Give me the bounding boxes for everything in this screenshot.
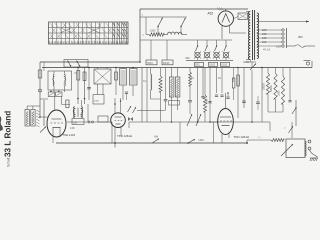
capacitor block C30 — [234, 13, 248, 20]
wire main bus — [42, 67, 312, 69]
capacitor C5 — [125, 91, 128, 93]
capacitor C7 — [188, 100, 192, 102]
tube V3 envelope — [218, 93, 234, 143]
valve data table grid — [49, 22, 129, 44]
transformer T1 secondary winding — [257, 13, 259, 59]
antenna coil box with L2 L3 — [48, 71, 72, 92]
detector box — [98, 116, 108, 122]
wire V1 top stubs — [54, 97, 56, 111]
fuse box F2 DW15 — [162, 60, 173, 65]
junction dot x247 — [246, 142, 248, 144]
resistor R2b — [83, 72, 86, 81]
IF can K2 winding sections — [120, 69, 138, 86]
wire transformer bottom lead — [249, 60, 251, 63]
wire x252b — [251, 70, 253, 122]
svg-text:Schalt: Schalt — [7, 158, 11, 167]
wire top bus — [140, 8, 248, 10]
svg-text:Gr/W: Gr/W — [243, 60, 250, 64]
wire lamp bottom bus — [186, 59, 233, 61]
svg-text:5000: 5000 — [206, 98, 209, 104]
capacitor C2 — [87, 87, 91, 89]
fuse box F3 D51 — [195, 62, 204, 66]
svg-text:50000: 50000 — [270, 85, 273, 92]
K3 base box — [169, 101, 180, 106]
output terminal box — [286, 139, 306, 158]
wire R1-L1 — [164, 34, 168, 36]
svg-text:220: 220 — [262, 28, 267, 32]
IF transformer L6 coils — [73, 100, 82, 118]
svg-text:30000: 30000 — [263, 83, 266, 90]
svg-text:≈: ≈ — [143, 33, 145, 37]
svg-text:125: 125 — [262, 36, 267, 40]
resistor R2a — [77, 71, 80, 81]
wire selector output fuse — [287, 45, 316, 48]
wire stub feed x151 — [150, 40, 152, 60]
resistor R14 — [232, 68, 235, 101]
band switch box — [64, 60, 88, 68]
terminals — [308, 140, 311, 150]
wire K2 stubs — [122, 68, 124, 69]
wire vertical x84 — [84, 68, 86, 105]
wire y99 link — [151, 98, 161, 100]
wire x190 lower — [189, 102, 191, 114]
wire vertical x147 — [146, 68, 148, 123]
svg-text:2000: 2000 — [278, 90, 281, 96]
V2 anode riser — [128, 122, 130, 128]
chassis ground — [310, 158, 318, 161]
V3 grid lead — [210, 121, 219, 123]
wire T2 right riser — [43, 100, 45, 126]
junction dots center — [171, 121, 211, 123]
switch bottom bus right — [187, 139, 195, 144]
svg-text:800: 800 — [232, 77, 235, 82]
svg-text:1:28: 1:28 — [70, 127, 75, 130]
svg-text:U163: U163 — [221, 64, 227, 67]
fuse box F1 TR15 — [146, 60, 157, 65]
wire lamp column x222 — [221, 68, 223, 94]
svg-text:150: 150 — [262, 32, 267, 36]
wire L1 right end — [182, 34, 187, 36]
capacitor C6 — [164, 68, 168, 111]
wire lamp feed drop — [231, 40, 233, 44]
switch S1 mains — [157, 17, 162, 27]
wire x213 riser — [213, 122, 215, 143]
hatch ticks on wire — [218, 8, 224, 11]
junction dots right — [237, 67, 263, 123]
wire x290 — [289, 68, 291, 101]
tube V2 envelope — [111, 113, 126, 143]
svg-text:38V: 38V — [298, 35, 303, 39]
switch S2 mains — [180, 18, 185, 27]
headphone jack top right — [304, 61, 313, 68]
transformer T1 primary winding — [246, 12, 250, 60]
resistor R7 zigzag — [159, 68, 162, 123]
ground hook wire — [310, 150, 318, 157]
wire x126 lower — [126, 94, 128, 101]
svg-text:D51: D51 — [195, 64, 200, 67]
wire lamp column x203 — [202, 68, 204, 97]
inductor L5 spring coil — [151, 68, 152, 100]
wire x180 riser — [179, 122, 181, 143]
svg-text:0,1: 0,1 — [143, 80, 147, 83]
resistor R1 barretter — [149, 30, 164, 37]
tube V1 envelope — [47, 110, 66, 143]
wire v2 bus link — [111, 122, 113, 143]
wire right bottoms — [268, 111, 283, 113]
trimmer capacitor CT2 — [56, 91, 62, 97]
wire bus to output box — [246, 140, 248, 143]
grid wires into V2 top — [114, 98, 121, 114]
resistor R11 — [270, 68, 277, 113]
capacitor C9 — [256, 101, 260, 103]
svg-text:110: 110 — [262, 40, 267, 44]
output transformer T2 — [25, 110, 40, 128]
resistor R8 5000 — [203, 68, 208, 123]
switch SW2 arrows — [187, 114, 201, 126]
wire detector line — [67, 121, 112, 123]
transformer tap leads — [257, 30, 282, 46]
wire lamp feed bus — [140, 39, 232, 41]
pickup arrow — [281, 144, 293, 156]
component on antenna lead — [38, 70, 42, 78]
detector nodes — [88, 121, 94, 123]
wire x270 bias end — [269, 122, 271, 131]
svg-text:TKD 1261H: TKD 1261H — [117, 134, 132, 138]
table cell markings — [50, 23, 128, 43]
IF can K3 — [169, 77, 180, 97]
svg-text:AW: AW — [154, 134, 159, 138]
svg-text:33 L Roland: 33 L Roland — [4, 111, 13, 157]
box under can 4000 — [93, 95, 104, 105]
coil can K1 with cross — [94, 69, 111, 84]
wire HT lead arrow — [257, 20, 309, 22]
wire x238 down — [237, 68, 239, 119]
wire second top line — [140, 16, 187, 18]
svg-text:U162: U162 — [209, 64, 215, 67]
wire stub feed x167 — [166, 40, 168, 60]
wire antenna down-lead — [39, 62, 42, 117]
capacitor C8 — [242, 100, 246, 102]
svg-text:4V 1A: 4V 1A — [263, 48, 270, 52]
wire vertical x89 — [88, 68, 90, 101]
svg-text:A52: A52 — [208, 12, 214, 16]
capacitor C10 — [201, 96, 204, 98]
resistor R13 — [271, 139, 284, 142]
resistor R5 — [115, 72, 118, 80]
wire vertical x142 — [141, 68, 143, 123]
wire lamp column x217 — [216, 68, 218, 94]
svg-text:4000: 4000 — [94, 101, 100, 103]
dial lamp La4 — [223, 40, 230, 60]
speaker switch arrow — [40, 127, 46, 133]
svg-text:0,65: 0,65 — [276, 46, 281, 49]
resistor R9 — [232, 75, 239, 86]
trimmer capacitor CT1 — [48, 91, 55, 97]
potentiometer arrow — [292, 100, 297, 126]
resistor R15 on x190 — [189, 68, 192, 101]
fuse box F4 U162 — [209, 62, 218, 66]
wire x262 — [261, 68, 263, 123]
V2 anode diode arrows — [128, 106, 137, 113]
svg-text:≈40Ω: ≈40Ω — [198, 139, 204, 142]
voltage selector contacts — [282, 28, 287, 48]
fuse box F5 U163 — [221, 62, 230, 66]
resistor R12 — [278, 68, 285, 113]
wire vertical x78 — [77, 68, 79, 105]
wire bottom bus — [56, 142, 248, 144]
resistor R10 — [263, 68, 270, 113]
wire S2 down — [180, 27, 182, 35]
svg-text:1500: 1500 — [150, 30, 156, 33]
wire y110 link — [137, 110, 166, 112]
wire lamp column x210 — [209, 68, 211, 123]
wire K1 stubs — [97, 68, 99, 70]
wire link y73 — [74, 72, 77, 74]
wire T2 leads — [26, 106, 28, 110]
junction dots under resistors — [77, 98, 85, 100]
wire x88 lower vertical — [87, 104, 89, 122]
wire x258 — [257, 96, 259, 102]
capacitor C13 — [288, 100, 291, 102]
dial lamp La2 — [204, 40, 211, 60]
V2 bowtie contact — [128, 117, 133, 121]
wire upper bus left — [40, 61, 140, 63]
svg-text:TR15: TR15 — [147, 62, 154, 65]
wire grid lead V1 — [39, 116, 47, 118]
dial lamp La1 — [194, 40, 201, 60]
dial lamp La3 — [213, 40, 220, 60]
pot riser x292 — [289, 122, 294, 138]
wire vertical x116 — [115, 68, 117, 96]
inductor L1 choke — [168, 32, 183, 34]
switch AW bottom — [152, 134, 159, 143]
wire bias line — [129, 121, 270, 123]
wire K3 stubs — [171, 68, 173, 78]
edge printing blob — [0, 116, 3, 131]
wire S1 to resistor row — [157, 27, 159, 35]
wire rectifier to transformer — [230, 32, 247, 34]
junction tick x115 — [114, 142, 116, 147]
transformer T1 core — [252, 10, 254, 60]
wire left riser power box — [139, 9, 141, 62]
wire lamp column x197 lower — [197, 68, 199, 123]
wire antenna links — [40, 98, 48, 100]
V3 top capacitors — [215, 92, 230, 98]
screen switch — [243, 60, 256, 70]
svg-text:DW15: DW15 — [163, 62, 170, 65]
svg-text:TKD 1261H: TKD 1261H — [234, 135, 250, 139]
svg-text:TKE 1134: TKE 1134 — [63, 133, 76, 137]
wire x244 — [243, 68, 245, 109]
resistor R16 above IF — [66, 100, 69, 108]
rectifier tube V4 — [218, 9, 233, 39]
junction dots bus — [77, 61, 141, 68]
capacitor C11 — [208, 101, 211, 103]
IF transformer box — [72, 119, 84, 125]
